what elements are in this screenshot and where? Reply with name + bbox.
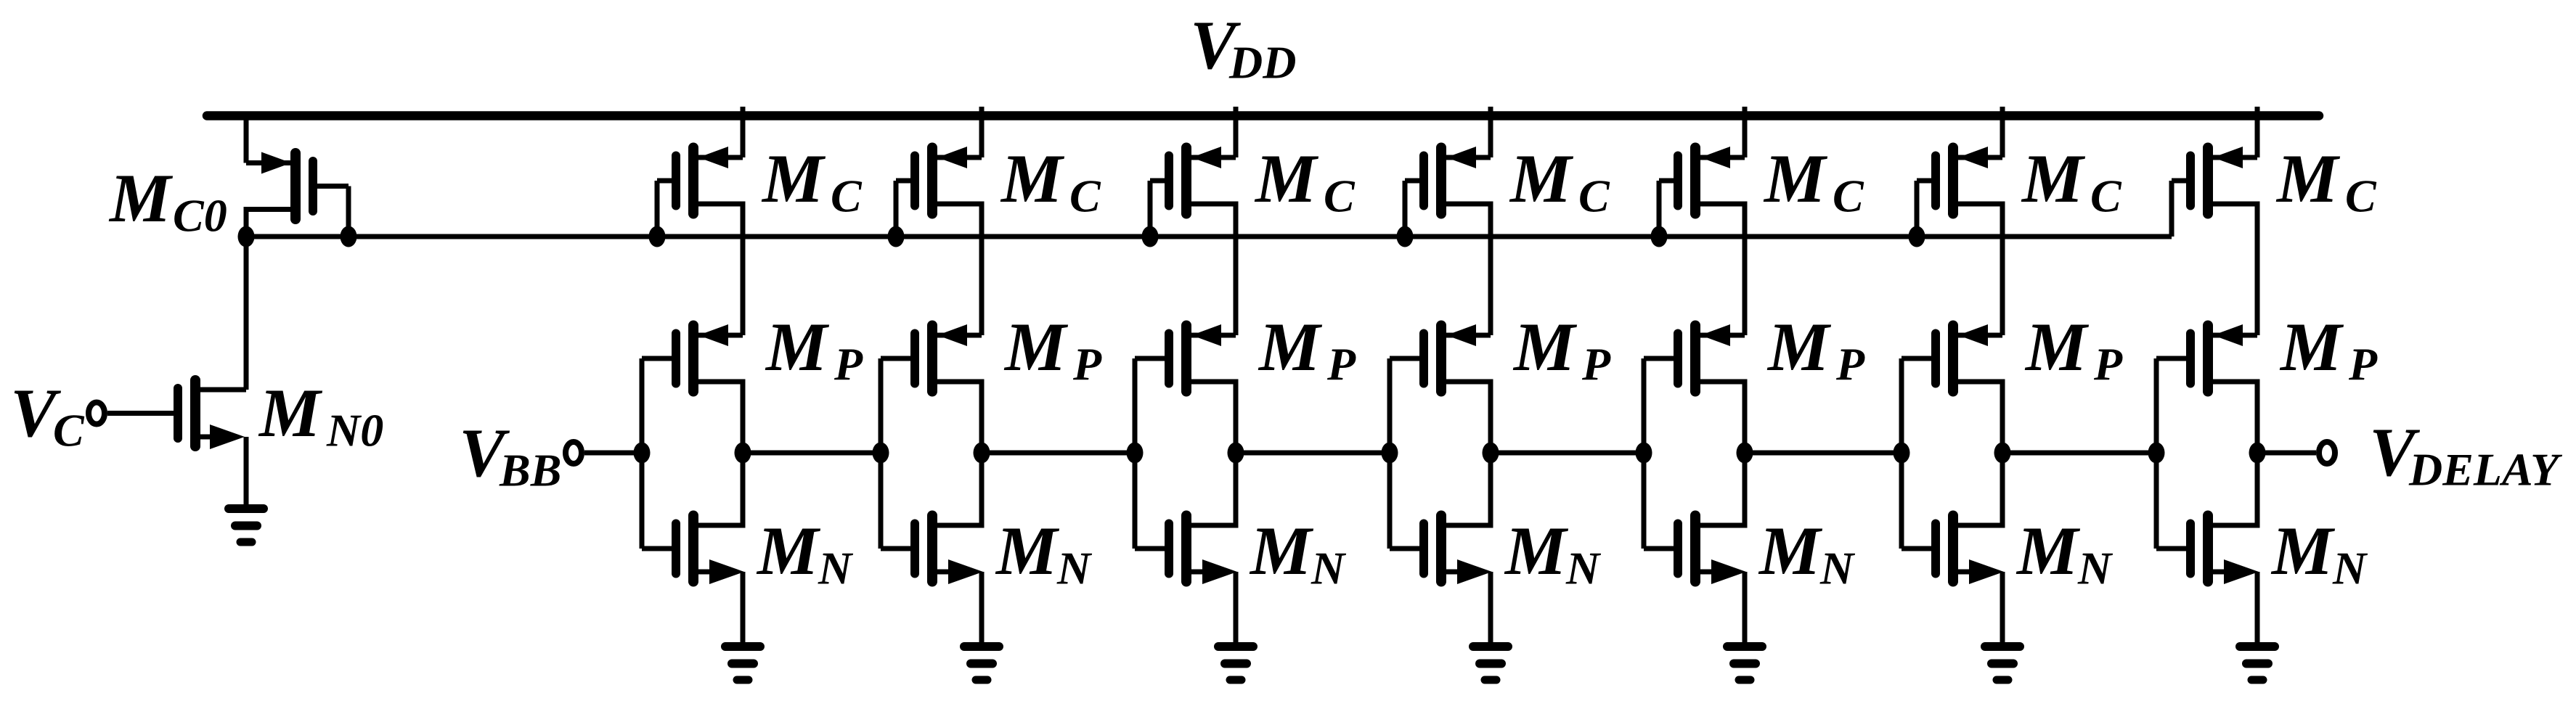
svg-text:M: M — [761, 140, 826, 217]
svg-text:M: M — [2275, 140, 2341, 217]
svg-text:N: N — [1311, 543, 1347, 594]
svg-text:N: N — [1565, 543, 1602, 594]
svg-text:M: M — [1254, 140, 1319, 217]
svg-text:M: M — [1258, 308, 1323, 385]
svg-text:N: N — [2332, 543, 2368, 594]
svg-text:N: N — [818, 543, 854, 594]
svg-text:M: M — [1758, 512, 1823, 589]
svg-text:DD: DD — [1228, 37, 1296, 89]
svg-text:C0: C0 — [173, 190, 227, 242]
svg-text:DELAY: DELAY — [2408, 444, 2562, 496]
svg-text:M: M — [2021, 140, 2086, 217]
svg-text:P: P — [833, 339, 863, 390]
svg-text:M: M — [2024, 308, 2090, 385]
svg-text:M: M — [1766, 308, 1832, 385]
svg-text:C: C — [2090, 171, 2122, 222]
svg-text:C: C — [1324, 171, 1356, 222]
svg-text:BB: BB — [499, 445, 561, 496]
svg-text:P: P — [2093, 339, 2123, 390]
svg-text:M: M — [1512, 308, 1578, 385]
svg-text:C: C — [2345, 171, 2377, 222]
svg-text:N0: N0 — [326, 405, 383, 456]
svg-text:C: C — [1578, 171, 1610, 222]
svg-text:C: C — [1069, 171, 1101, 222]
svg-text:P: P — [1581, 339, 1611, 390]
svg-text:M: M — [1003, 308, 1069, 385]
svg-text:C: C — [831, 171, 863, 222]
svg-text:C: C — [1833, 171, 1864, 222]
svg-text:M: M — [258, 374, 323, 451]
svg-text:M: M — [2279, 308, 2344, 385]
svg-text:M: M — [1509, 140, 1574, 217]
svg-text:M: M — [756, 512, 821, 589]
svg-text:N: N — [2077, 543, 2114, 594]
svg-text:P: P — [2348, 339, 2378, 390]
svg-text:M: M — [1504, 512, 1569, 589]
svg-text:M: M — [1000, 140, 1065, 217]
svg-text:C: C — [53, 405, 85, 456]
svg-text:P: P — [1326, 339, 1356, 390]
svg-text:M: M — [2015, 512, 2081, 589]
svg-text:M: M — [995, 512, 1060, 589]
svg-text:N: N — [1056, 543, 1093, 594]
svg-text:M: M — [1763, 140, 1828, 217]
svg-text:N: N — [1819, 543, 1856, 594]
svg-text:P: P — [1072, 339, 1102, 390]
svg-text:M: M — [765, 308, 830, 385]
svg-text:M: M — [108, 160, 174, 237]
svg-text:M: M — [1249, 512, 1314, 589]
svg-text:M: M — [2270, 512, 2336, 589]
svg-text:P: P — [1835, 339, 1865, 390]
